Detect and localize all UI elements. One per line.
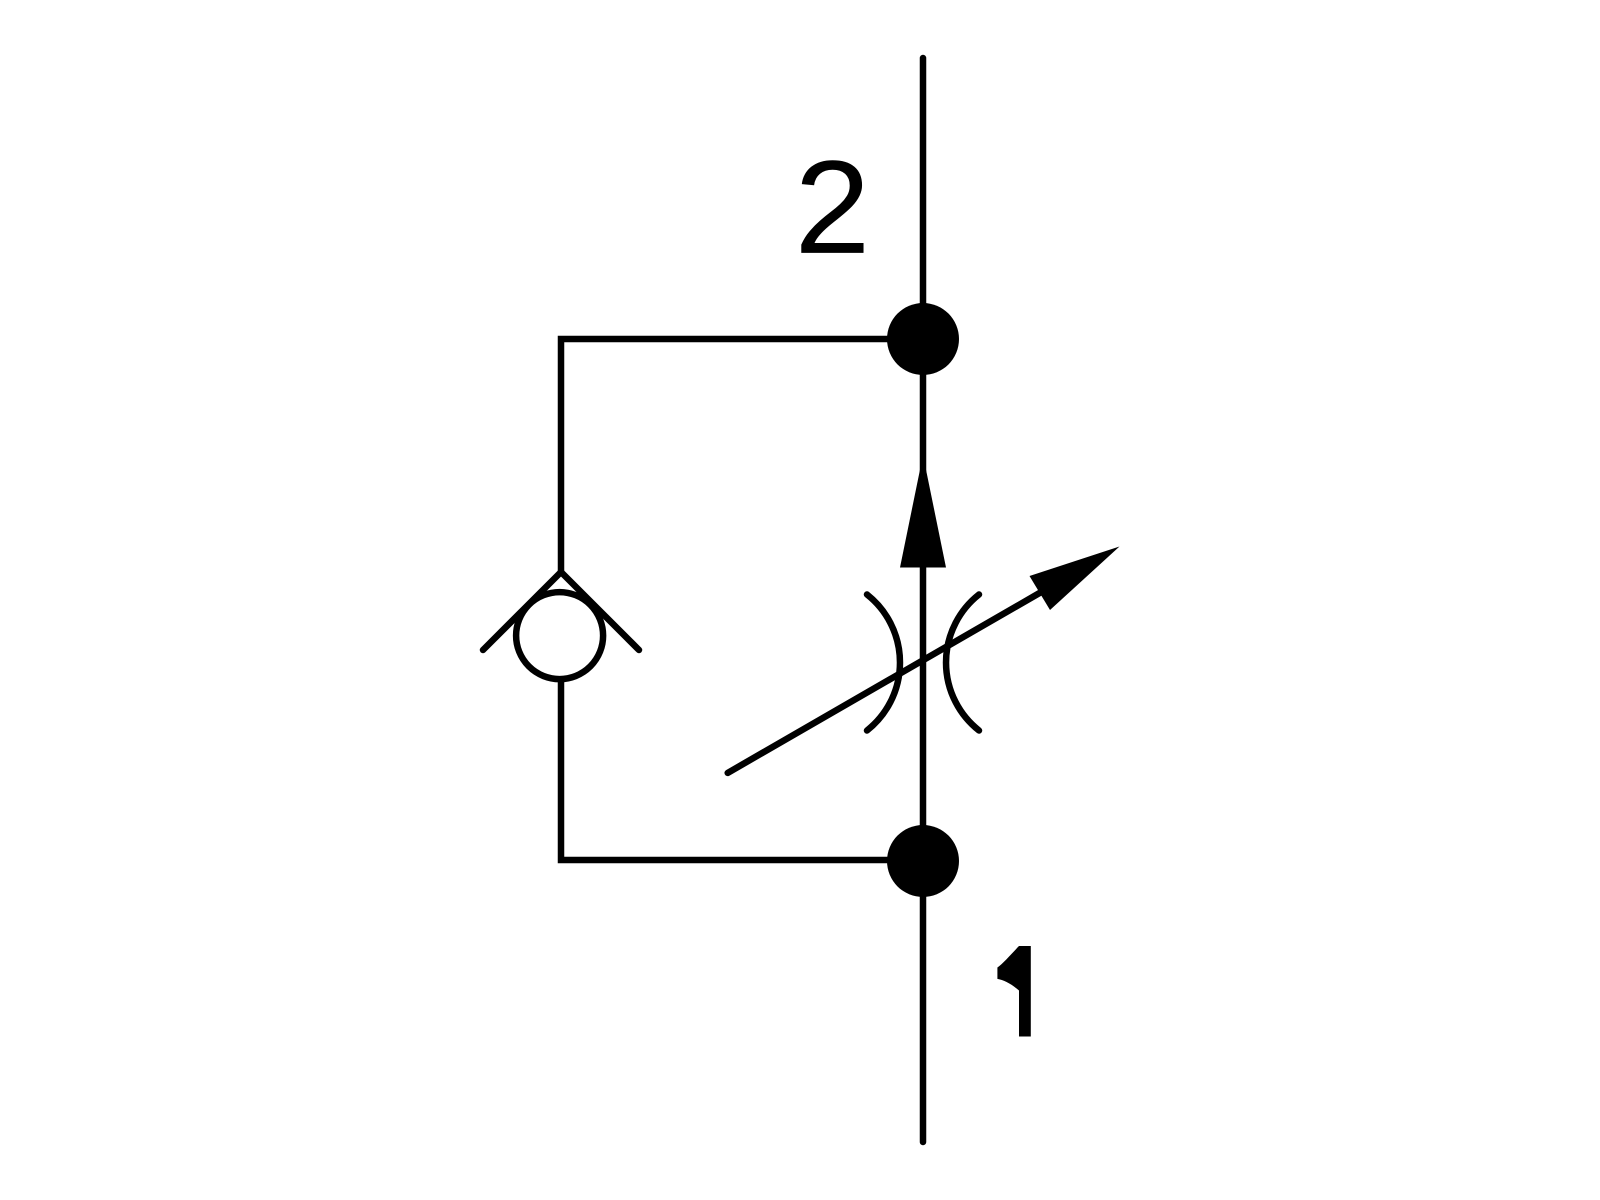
main flow line (port 2 to port 1) bbox=[920, 58, 927, 1142]
label 1 bbox=[997, 946, 1030, 1037]
throttle arc right bbox=[946, 595, 979, 731]
label 2 bbox=[801, 160, 863, 253]
adjustment arrow shaft bbox=[728, 591, 1043, 773]
junction node 1 bbox=[887, 825, 959, 897]
check valve seat right leg bbox=[561, 572, 639, 650]
flow direction arrow bbox=[900, 455, 946, 568]
check valve ball bbox=[516, 592, 603, 679]
bypass wire bottom (ball to node 1) bbox=[561, 678, 923, 860]
junction node 2 bbox=[887, 303, 959, 375]
adjustment arrow head bbox=[1030, 547, 1120, 611]
throttle arc left bbox=[867, 595, 900, 731]
check valve seat left leg bbox=[483, 572, 561, 650]
bypass wire top (node 2 to corner) bbox=[561, 339, 923, 572]
